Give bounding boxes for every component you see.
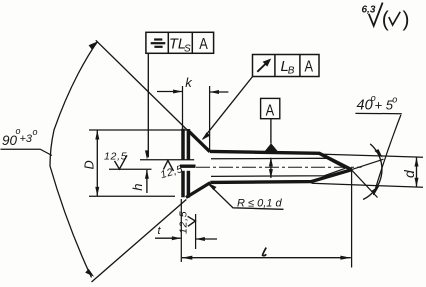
dimension l: right ext line (from tip) (351, 171, 353, 268)
dimension t: right ext line (195, 214, 197, 249)
svg-text:A: A (266, 102, 275, 120)
head outline: face vertical right stroke (187, 129, 191, 160)
head cone bottom edge (186, 183, 210, 198)
svg-text:o: o (392, 95, 397, 105)
svg-text:S: S (184, 43, 191, 54)
svg-text:+ 5: + 5 (375, 98, 394, 113)
symmetry symbol in frame 1 (154, 38, 162, 40)
datum stem (270, 119, 272, 144)
arrowhead h down (145, 150, 149, 159)
shank bottom outline (210, 170, 351, 183)
head outline: face vertical left stroke (181, 129, 185, 160)
frame 2 leader (203, 77, 253, 140)
dimension h: lower line (146, 170, 148, 193)
svg-text:(: ( (382, 8, 389, 31)
roughness tick on slot upper line (inverted) (163, 160, 173, 171)
wire: 90-degree extension line lower (92, 200, 187, 283)
dimension k: right arrow line (210, 91, 228, 93)
dimension t: right arrow (196, 238, 217, 240)
R leader: arrowhead and polyline (208, 184, 283, 210)
runout arrow symbol in frame 2 (257, 61, 269, 72)
dimension l: left ext line (180, 199, 182, 262)
shank inner top line (211, 158, 345, 168)
dimension h: upper line (doubles as frame leader) (147, 53, 149, 157)
dimension k: left ext line (182, 86, 184, 129)
dimension D: bottom extension line (89, 195, 175, 197)
dimension k: left arrow line (157, 91, 182, 93)
arc: 90deg angle dimension arc (50, 42, 98, 278)
svg-text:D: D (83, 160, 97, 169)
slot bottom thick bar (180, 164, 196, 167)
point angle 40deg: leader from label (374, 115, 401, 195)
dimension t: left arrow (155, 237, 181, 239)
dimension l: dim line (182, 257, 351, 259)
tolerance frame 2 (runout LB A) (253, 55, 320, 77)
tolerance frame 1 (symmetry TLs A) (146, 32, 214, 53)
dimension d: top ext line (320, 154, 424, 157)
svg-text:): ) (403, 8, 410, 31)
shank top outline (210, 151, 352, 169)
svg-text:o: o (33, 127, 38, 137)
shank inner bottom line (211, 168, 345, 176)
svg-text:6,3: 6,3 (362, 5, 376, 16)
dimension D: dim line (96, 130, 98, 196)
arrowhead: arc top (89, 41, 98, 50)
slot bottom extension line (thin) (109, 168, 152, 170)
datum diameter double arrow (270, 158, 272, 178)
svg-text:h: h (130, 184, 145, 191)
roughness tick rotated (slot bottom face) (188, 216, 196, 226)
svg-text:12,5: 12,5 (104, 151, 127, 163)
top-right surface mark 6,3 tick (369, 3, 383, 26)
svg-text:12,5: 12,5 (177, 211, 189, 234)
datum triangle (filled) (263, 143, 279, 153)
point angle 40deg: label shelf (355, 112, 401, 114)
point angle 40deg: lower arm from tip (351, 170, 377, 198)
datum A box (261, 98, 280, 118)
svg-text:B: B (288, 66, 295, 77)
top-right small tick in parens (389, 12, 400, 25)
label l (263, 248, 267, 256)
centerline axis (196, 166, 362, 168)
svg-text:+3: +3 (20, 133, 33, 145)
slot top extension line (thin) (140, 159, 194, 161)
label 90+3 leader shelf (1, 149, 53, 155)
head cone top edge (188, 130, 210, 151)
svg-text:R ≤ 0,1 d: R ≤ 0,1 d (237, 198, 282, 210)
point angle 40deg: arc (363, 144, 382, 200)
svg-text:A: A (199, 36, 208, 54)
svg-text:d: d (401, 169, 417, 178)
arrowhead h up (145, 170, 149, 179)
arrowhead D bottom (95, 187, 99, 196)
dimension D: top extension line (89, 129, 189, 131)
dimension d: dim line (416, 157, 418, 187)
arrowhead D top (95, 130, 99, 139)
arrowhead: arc bottom (85, 269, 94, 277)
arrowhead 40 arc bottom (371, 186, 380, 195)
roughness tick left (12,5 at slot ext) (115, 155, 128, 169)
dimension d: bottom ext line (312, 183, 424, 187)
arrowhead 40 arc top (374, 149, 382, 158)
svg-text:A: A (305, 58, 314, 76)
point angle 40deg: upper arm from tip (351, 159, 383, 170)
dimension k: right ext line (209, 86, 211, 152)
wire: 90-degree extension line upper (96, 40, 189, 131)
